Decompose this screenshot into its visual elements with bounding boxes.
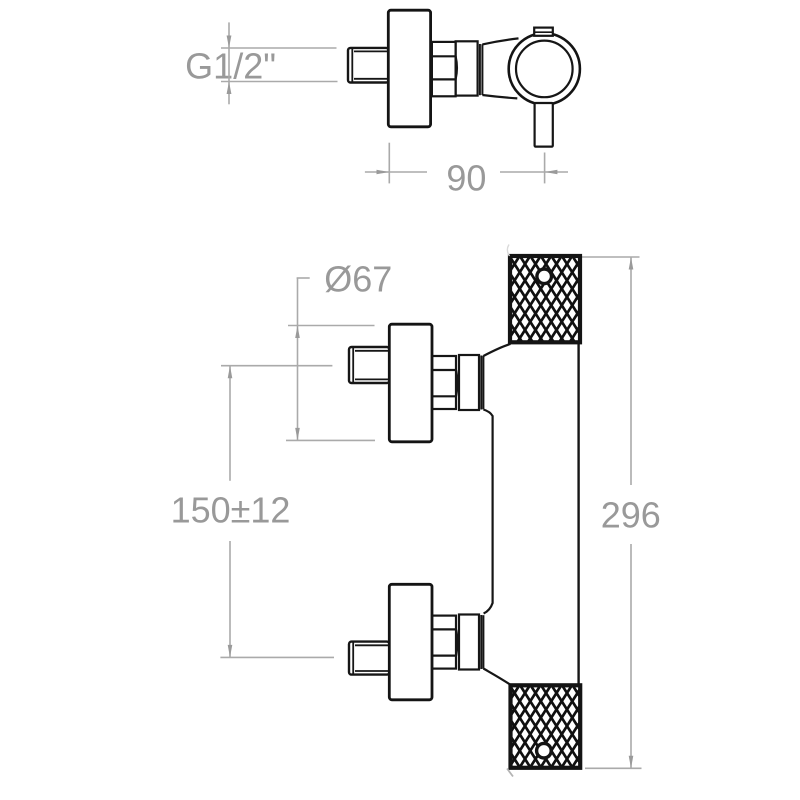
svg-text:90: 90 bbox=[446, 157, 486, 198]
cone to valve body top bbox=[482, 38, 518, 44]
G1/2 arrow lower bbox=[227, 82, 232, 95]
296 arrow upper bbox=[629, 257, 634, 270]
150±12 extension line lower bbox=[220, 656, 334, 658]
lower end face double line bbox=[480, 615, 482, 669]
threaded nipple (side view) bbox=[348, 48, 389, 83]
upper knurl screw hole bbox=[535, 267, 553, 285]
extension line top of nipple bbox=[221, 47, 337, 49]
150±12 arrow upper bbox=[228, 366, 233, 379]
lever handle (side view) bbox=[535, 103, 553, 147]
90 dimension line right segment bbox=[500, 171, 568, 173]
svg-text:150±12: 150±12 bbox=[171, 490, 291, 531]
296 arrow lower bbox=[629, 756, 634, 769]
lower knurl screw hole bbox=[535, 742, 553, 760]
Ø67 leader tick bbox=[297, 277, 310, 279]
Ø67 vertical dimension line bbox=[297, 278, 299, 440]
hex nut (side view) bbox=[432, 42, 457, 96]
extension line bottom of nipple bbox=[221, 81, 338, 83]
G1/2 dimension line vertical bbox=[228, 22, 230, 104]
90 dimension: tick at handle axis bbox=[544, 153, 546, 184]
svg-text:G1/2": G1/2" bbox=[185, 46, 276, 87]
Ø67 extension line bottom bbox=[286, 439, 375, 441]
collar (side view) bbox=[456, 41, 478, 95]
upper knurled cylinder bbox=[510, 256, 580, 342]
150±12 dimension line upper part bbox=[229, 366, 231, 481]
cone to valve body bottom bbox=[482, 95, 517, 98]
upper collar (front view) bbox=[459, 355, 479, 410]
body bar left contour upper curve bbox=[483, 410, 492, 614]
lower collar (front view) bbox=[459, 615, 479, 670]
faint scan artifact below lower knurl bbox=[507, 769, 513, 777]
lower wall plate (front view) bbox=[389, 584, 432, 700]
296 dimension line lower part bbox=[630, 544, 632, 768]
upper threaded nipple (front view) bbox=[349, 347, 389, 383]
Ø67 arrow lower bbox=[295, 428, 300, 441]
lower threaded nipple (front view) bbox=[349, 642, 389, 675]
lower knurled cylinder bbox=[511, 685, 581, 768]
150±12 arrow lower bbox=[228, 645, 233, 658]
150±12 extension line upper bbox=[221, 365, 332, 367]
Ø67 arrow upper bbox=[295, 326, 300, 339]
90 arrow left bbox=[377, 170, 390, 175]
valve body inner circle bbox=[516, 41, 573, 98]
body bar right edge bbox=[577, 343, 579, 686]
wall plate (side view) bbox=[388, 10, 430, 127]
top tab bbox=[534, 28, 553, 36]
296 dimension line upper part bbox=[630, 257, 632, 485]
svg-text:Ø67: Ø67 bbox=[324, 259, 392, 300]
Ø67 extension line top bbox=[288, 325, 375, 327]
upper slope to knurl bbox=[483, 344, 510, 356]
296 extension line bottom bbox=[585, 767, 642, 769]
svg-text:296: 296 bbox=[601, 494, 661, 535]
150±12 dimension line lower part bbox=[229, 541, 231, 657]
upper end face double line bbox=[480, 356, 482, 410]
296 extension line top bbox=[560, 256, 640, 258]
90 dimension line left segment bbox=[365, 171, 427, 173]
G1/2 arrow upper bbox=[227, 36, 232, 49]
valve body outer circle bbox=[509, 33, 580, 104]
faint scan artifact left of upper knurl corner bbox=[507, 245, 509, 257]
upper hex nut (front view) bbox=[432, 356, 457, 409]
lower slope to knurl bbox=[483, 669, 510, 685]
90 arrow right bbox=[545, 170, 558, 175]
body end face double line bbox=[479, 44, 481, 95]
90 dimension: tick at wall plane bbox=[388, 143, 390, 184]
upper wall plate (front view) bbox=[389, 324, 432, 442]
lower hex nut (front view) bbox=[432, 616, 457, 669]
